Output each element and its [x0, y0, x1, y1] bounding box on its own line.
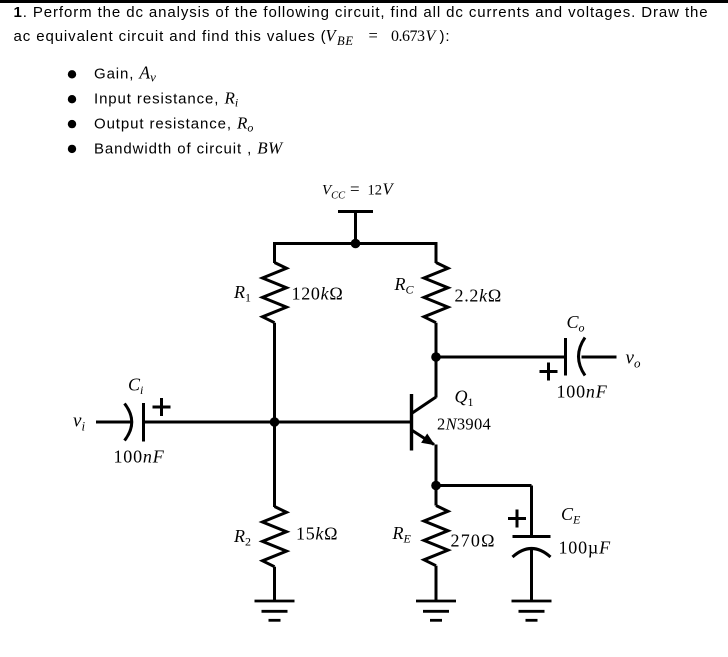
resistor Rc: [424, 263, 448, 323]
Vcc supply bar: [338, 210, 373, 213]
svg-text:RC: RC: [394, 274, 415, 297]
wire: down to CE top plate: [530, 486, 533, 536]
svg-text:vo: vo: [626, 348, 641, 371]
svg-text:RE: RE: [392, 523, 412, 546]
resistor RE: [424, 506, 448, 566]
svg-text:Input resistance, Ri: Input resistance, Ri: [94, 89, 238, 110]
wire: R1 to R2 through base node: [273, 323, 276, 507]
svg-text:Q1: Q1: [455, 387, 474, 410]
bullet 2 dot: [68, 95, 76, 103]
svg-text:15kΩ: 15kΩ: [296, 524, 338, 544]
svg-text:Bandwidth of circuit , BW: Bandwidth of circuit , BW: [94, 138, 284, 157]
wire: emitter down: [435, 445, 438, 506]
svg-text:vi: vi: [73, 411, 85, 434]
bullet 4 dot: [68, 145, 76, 153]
wire: RE to ground: [435, 566, 438, 601]
plus sign of CE: [508, 510, 526, 528]
top border line: [0, 0, 728, 3]
capacitor Co flat plate: [564, 338, 567, 376]
wire: Vcc bar to rail: [354, 212, 357, 244]
svg-text:Ci: Ci: [128, 375, 143, 398]
svg-text:120kΩ: 120kΩ: [292, 284, 344, 304]
wire: Rc to collector: [435, 323, 438, 398]
wire: vi to Ci: [96, 421, 131, 424]
wire: collector to Co: [436, 356, 566, 359]
svg-text:100µF: 100µF: [559, 538, 612, 558]
plus sign of Ci: [153, 398, 171, 416]
svg-text:):: ):: [440, 28, 451, 45]
wire: emitter to CE: [436, 484, 532, 487]
svg-text:VCC=12V: VCC=12V: [322, 180, 395, 202]
wire: Co to vo: [582, 356, 617, 359]
svg-text:V: V: [326, 26, 338, 45]
node: emitter junction dot: [431, 481, 441, 491]
resistor R1: [263, 263, 287, 323]
svg-text:R1: R1: [233, 282, 251, 305]
svg-text:Gain, Av: Gain, Av: [94, 63, 156, 85]
capacitor Ci curved plate: [125, 404, 132, 441]
wire: CE to ground: [530, 549, 533, 601]
wire: rail to Rc: [435, 244, 438, 264]
wire: Ci to base: [144, 421, 411, 424]
transistor Q1 emitter arrow: [421, 434, 435, 446]
svg-text:100nF: 100nF: [114, 447, 165, 467]
svg-text:270Ω: 270Ω: [451, 531, 496, 551]
svg-text:2.2kΩ: 2.2kΩ: [455, 286, 502, 306]
svg-text:ac equivalent circuit and find: ac equivalent circuit and find this valu…: [14, 28, 327, 45]
capacitor CE curved plate: [513, 549, 551, 558]
node: base junction dot: [270, 417, 280, 427]
capacitor CE flat plate: [513, 535, 551, 538]
ground under R2: [255, 601, 295, 620]
ground under CE: [512, 601, 552, 620]
node: Vcc junction dot: [351, 239, 361, 249]
svg-text:Output resistance, Ro: Output resistance, Ro: [94, 113, 253, 134]
wire: R2 to ground: [273, 567, 276, 601]
svg-text:Co: Co: [567, 312, 585, 335]
plus sign of Co: [540, 363, 558, 381]
capacitor Ci flat plate: [142, 403, 145, 442]
transistor Q1 base bar: [410, 394, 413, 451]
bullet 1 dot: [68, 70, 76, 78]
svg-text:2N3904: 2N3904: [437, 415, 491, 434]
node: collector junction dot: [431, 352, 441, 362]
transistor Q1 emitter diagonal: [412, 430, 435, 445]
wire: top rail: [273, 242, 438, 245]
svg-text:BE: BE: [337, 34, 354, 48]
transistor Q1 collector diagonal: [412, 397, 437, 414]
wire: rail to R1: [273, 244, 276, 264]
svg-text:CE: CE: [561, 504, 581, 527]
svg-text:=0.673V: =0.673V: [369, 26, 438, 45]
ground under RE: [416, 601, 456, 620]
svg-text:R2: R2: [233, 526, 251, 549]
bullet 3 dot: [68, 120, 76, 128]
resistor R2: [263, 507, 287, 567]
capacitor Co curved plate: [579, 338, 586, 376]
svg-text:100nF: 100nF: [557, 382, 608, 402]
svg-text:1. Perform the dc analysis of: 1. Perform the dc analysis of the follow…: [14, 4, 709, 21]
